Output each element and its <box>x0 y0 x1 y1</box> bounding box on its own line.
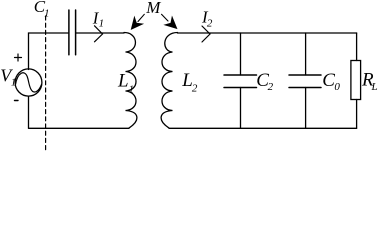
wire: right rail top into RL <box>356 33 358 61</box>
wire: C2 top stub <box>240 33 242 75</box>
current arrow I2 (chevron on wire) <box>202 26 210 42</box>
label L2 <box>181 70 198 94</box>
svg-text:L: L <box>117 70 129 91</box>
resistor RL (load, rectangle) <box>351 61 361 100</box>
svg-text:L: L <box>371 81 378 93</box>
svg-text:2: 2 <box>207 17 213 29</box>
inductor L2 (secondary coil, bumps to the left) <box>161 33 177 129</box>
label RL <box>361 69 378 93</box>
label C0 <box>322 70 340 93</box>
wire: RL bottom to bottom rail <box>356 100 358 129</box>
wire: C0 top stub <box>305 33 307 75</box>
inductor L1 (primary coil, bumps to the right) <box>124 33 137 129</box>
wire: primary bottom rail <box>29 127 130 129</box>
capacitor C0 (horizontal plates) <box>289 75 321 88</box>
label L1 <box>117 70 134 95</box>
svg-text:C: C <box>322 70 335 91</box>
wire: secondary bottom rail <box>169 127 357 129</box>
label C2 <box>256 70 273 93</box>
svg-text:1: 1 <box>99 17 105 29</box>
mutual coupling arrow to L2 <box>162 14 177 28</box>
svg-text:1: 1 <box>11 76 16 88</box>
capacitor C2 (horizontal plates) <box>224 75 257 88</box>
capacitor C1 (series capacitor, two vertical plates) <box>69 10 76 55</box>
svg-text:1: 1 <box>129 84 135 96</box>
wire: C1 right plate to L1 top <box>76 32 124 34</box>
current arrow I1 (chevron on wire) <box>95 26 103 42</box>
dashed partition line through C1 node <box>45 16 47 150</box>
label I2 <box>201 8 213 30</box>
wire: C0 bottom stub <box>305 88 307 129</box>
mutual coupling arrow to L1 <box>131 14 144 29</box>
sine wave inside V1 <box>16 73 42 92</box>
wire: C2 bottom stub <box>240 88 242 129</box>
label I1 <box>92 8 104 29</box>
label C1 <box>34 0 50 19</box>
svg-text:0: 0 <box>334 81 340 93</box>
wire: secondary top rail <box>178 32 357 34</box>
svg-text:1: 1 <box>44 8 50 20</box>
label V1 <box>0 65 16 88</box>
plus polarity mark <box>15 54 22 61</box>
svg-text:2: 2 <box>192 82 198 94</box>
svg-text:M: M <box>145 0 161 17</box>
minus polarity mark <box>15 100 19 102</box>
wire: V1 bottom down to bottom rail <box>28 96 30 128</box>
svg-text:2: 2 <box>268 81 274 93</box>
voltage source V1 (AC source circle) <box>15 69 42 96</box>
wire: V1 top to C1 left plate <box>29 33 69 70</box>
